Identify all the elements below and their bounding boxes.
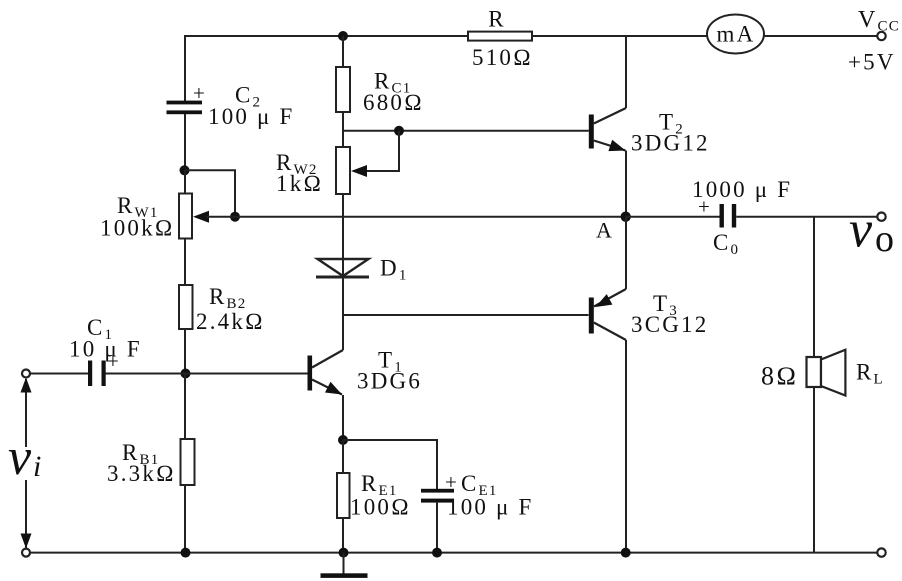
wire input to C1 bbox=[30, 373, 89, 375]
svg-text:mA: mA bbox=[717, 22, 756, 47]
svg-text:v: v bbox=[8, 429, 33, 486]
capacitor C2 bbox=[167, 101, 203, 115]
wire T1 emitter down bbox=[342, 395, 344, 440]
svg-text:100kΩ: 100kΩ bbox=[100, 216, 175, 241]
node CE1 bottom bbox=[432, 548, 442, 558]
wire RE1 to rail bbox=[342, 518, 344, 553]
wire node to wiper line bbox=[185, 170, 236, 216]
terminal vo bbox=[877, 213, 885, 221]
wire T2 collector up bbox=[625, 36, 627, 108]
svg-text:o: o bbox=[875, 218, 896, 260]
T3 collector diagonal bbox=[594, 323, 626, 341]
wire bottom rail bbox=[30, 552, 878, 554]
wiper arrow RW2 bbox=[351, 165, 367, 177]
speaker RL bbox=[807, 357, 822, 387]
resistor RB1 bbox=[181, 439, 195, 485]
svg-text:+: + bbox=[107, 349, 121, 373]
node on wiper line bbox=[230, 212, 240, 222]
node A bbox=[621, 212, 631, 222]
wire RL branch down bbox=[813, 217, 815, 357]
wire C1 to base node bbox=[106, 373, 187, 375]
svg-text:10 μ F: 10 μ F bbox=[69, 337, 142, 362]
wire T3 emitter up to node A bbox=[625, 217, 627, 289]
svg-text:+: + bbox=[445, 470, 459, 494]
wire T2 emitter to node A bbox=[625, 151, 627, 217]
svg-text:100Ω: 100Ω bbox=[350, 495, 411, 520]
terminal VCC bbox=[877, 32, 885, 40]
diode D1 bbox=[316, 259, 369, 277]
svg-text:1kΩ: 1kΩ bbox=[276, 171, 323, 196]
svg-text:3CG12: 3CG12 bbox=[631, 312, 708, 337]
transistor T3 bbox=[589, 298, 594, 334]
wire T3 collector down bbox=[625, 340, 627, 553]
svg-text:v: v bbox=[849, 202, 874, 259]
wire rail to RC1 bbox=[342, 36, 344, 67]
potentiometer RW1 bbox=[179, 194, 192, 239]
capacitor CE1 bbox=[421, 489, 454, 503]
terminal input bottom bbox=[22, 549, 30, 557]
svg-text:3DG12: 3DG12 bbox=[631, 131, 710, 156]
transistor T2 bbox=[589, 115, 594, 149]
node emitter T1 bbox=[338, 435, 348, 445]
svg-text:510Ω: 510Ω bbox=[472, 45, 533, 70]
ground bbox=[343, 553, 345, 574]
T2 collector diagonal bbox=[594, 108, 626, 124]
svg-text:8Ω: 8Ω bbox=[761, 362, 798, 391]
T3 emitter diagonal bbox=[594, 289, 626, 307]
T1 emitter diagonal bbox=[312, 380, 342, 395]
wire RC1 to RW2 bbox=[342, 112, 344, 147]
wire RE1 top lead bbox=[342, 440, 344, 473]
svg-text:+: + bbox=[698, 195, 712, 219]
node RC1 top bbox=[338, 31, 348, 41]
resistor RC1 bbox=[336, 67, 350, 112]
node ground bbox=[339, 548, 349, 558]
node T3 collector bottom bbox=[621, 548, 631, 558]
node base T1 bbox=[181, 369, 191, 379]
terminal input top bbox=[22, 370, 30, 378]
ammeter mA bbox=[707, 15, 764, 54]
node RW2 tap bbox=[394, 126, 404, 136]
wire T3 base line bbox=[343, 314, 589, 316]
svg-text:R: R bbox=[488, 7, 506, 32]
svg-text:100 μ F: 100 μ F bbox=[447, 495, 534, 520]
resistor RB2 bbox=[179, 285, 193, 329]
resistor RE1 bbox=[337, 473, 350, 518]
wire tap down and left bbox=[364, 131, 399, 171]
wire top rail left segment bbox=[185, 36, 468, 101]
svg-text:i: i bbox=[33, 450, 44, 483]
transistor T1 bbox=[308, 356, 313, 391]
wire feedback line wiper to node A bbox=[206, 216, 626, 218]
svg-text:3DG6: 3DG6 bbox=[357, 369, 422, 394]
vi arrow upper bbox=[25, 379, 27, 447]
resistor R bbox=[468, 32, 532, 41]
wire base node to RB1 bbox=[184, 374, 186, 440]
svg-text:A: A bbox=[596, 218, 614, 243]
wire RW1 to RB2 bbox=[184, 239, 186, 286]
capacitor C1 bbox=[88, 361, 106, 387]
T1 collector diagonal bbox=[312, 350, 343, 368]
node RB1 bottom bbox=[181, 548, 191, 558]
svg-text:2.4kΩ: 2.4kΩ bbox=[196, 309, 265, 334]
wire CE1 to rail bbox=[436, 503, 438, 553]
svg-text:680Ω: 680Ω bbox=[363, 90, 424, 115]
terminal bottom right bbox=[877, 548, 885, 556]
vi arrow lower bbox=[25, 480, 27, 548]
wire C0 to vo terminal bbox=[736, 216, 878, 218]
T2 emitter diagonal bbox=[594, 141, 626, 151]
wire node A to C0 bbox=[626, 216, 720, 218]
node C2-RW1 bbox=[180, 165, 190, 175]
wire emitter node to CE1 bbox=[343, 440, 437, 489]
svg-text:100 μ F: 100 μ F bbox=[208, 104, 295, 129]
svg-text:+5V: +5V bbox=[848, 50, 896, 75]
wiper arrow RW1 bbox=[193, 211, 209, 223]
wire top rail middle segment bbox=[532, 35, 708, 37]
wire C2 to node bbox=[184, 114, 186, 170]
wire RL to bottom rail bbox=[813, 387, 815, 553]
wire RB1 to bottom rail bbox=[184, 485, 186, 553]
svg-text:+: + bbox=[193, 81, 207, 105]
capacitor C0 bbox=[720, 204, 737, 228]
potentiometer RW2 bbox=[336, 147, 350, 194]
wire T1 base bbox=[186, 373, 308, 375]
wire RW1 top lead bbox=[184, 170, 186, 194]
wire top rail right segment bbox=[764, 35, 878, 37]
wire base line to T2 bbox=[343, 130, 589, 132]
wire RB2 to base node bbox=[184, 329, 186, 374]
wire RW2 to T1 collector (through D1) bbox=[342, 194, 344, 350]
svg-text:3.3kΩ: 3.3kΩ bbox=[107, 461, 176, 486]
